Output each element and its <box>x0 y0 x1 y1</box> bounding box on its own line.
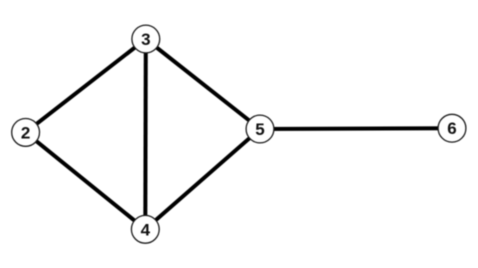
svg-text:4: 4 <box>141 220 151 239</box>
svg-text:5: 5 <box>255 120 264 139</box>
svg-text:3: 3 <box>141 30 150 49</box>
svg-text:6: 6 <box>447 119 456 138</box>
svg-text:2: 2 <box>21 123 30 142</box>
